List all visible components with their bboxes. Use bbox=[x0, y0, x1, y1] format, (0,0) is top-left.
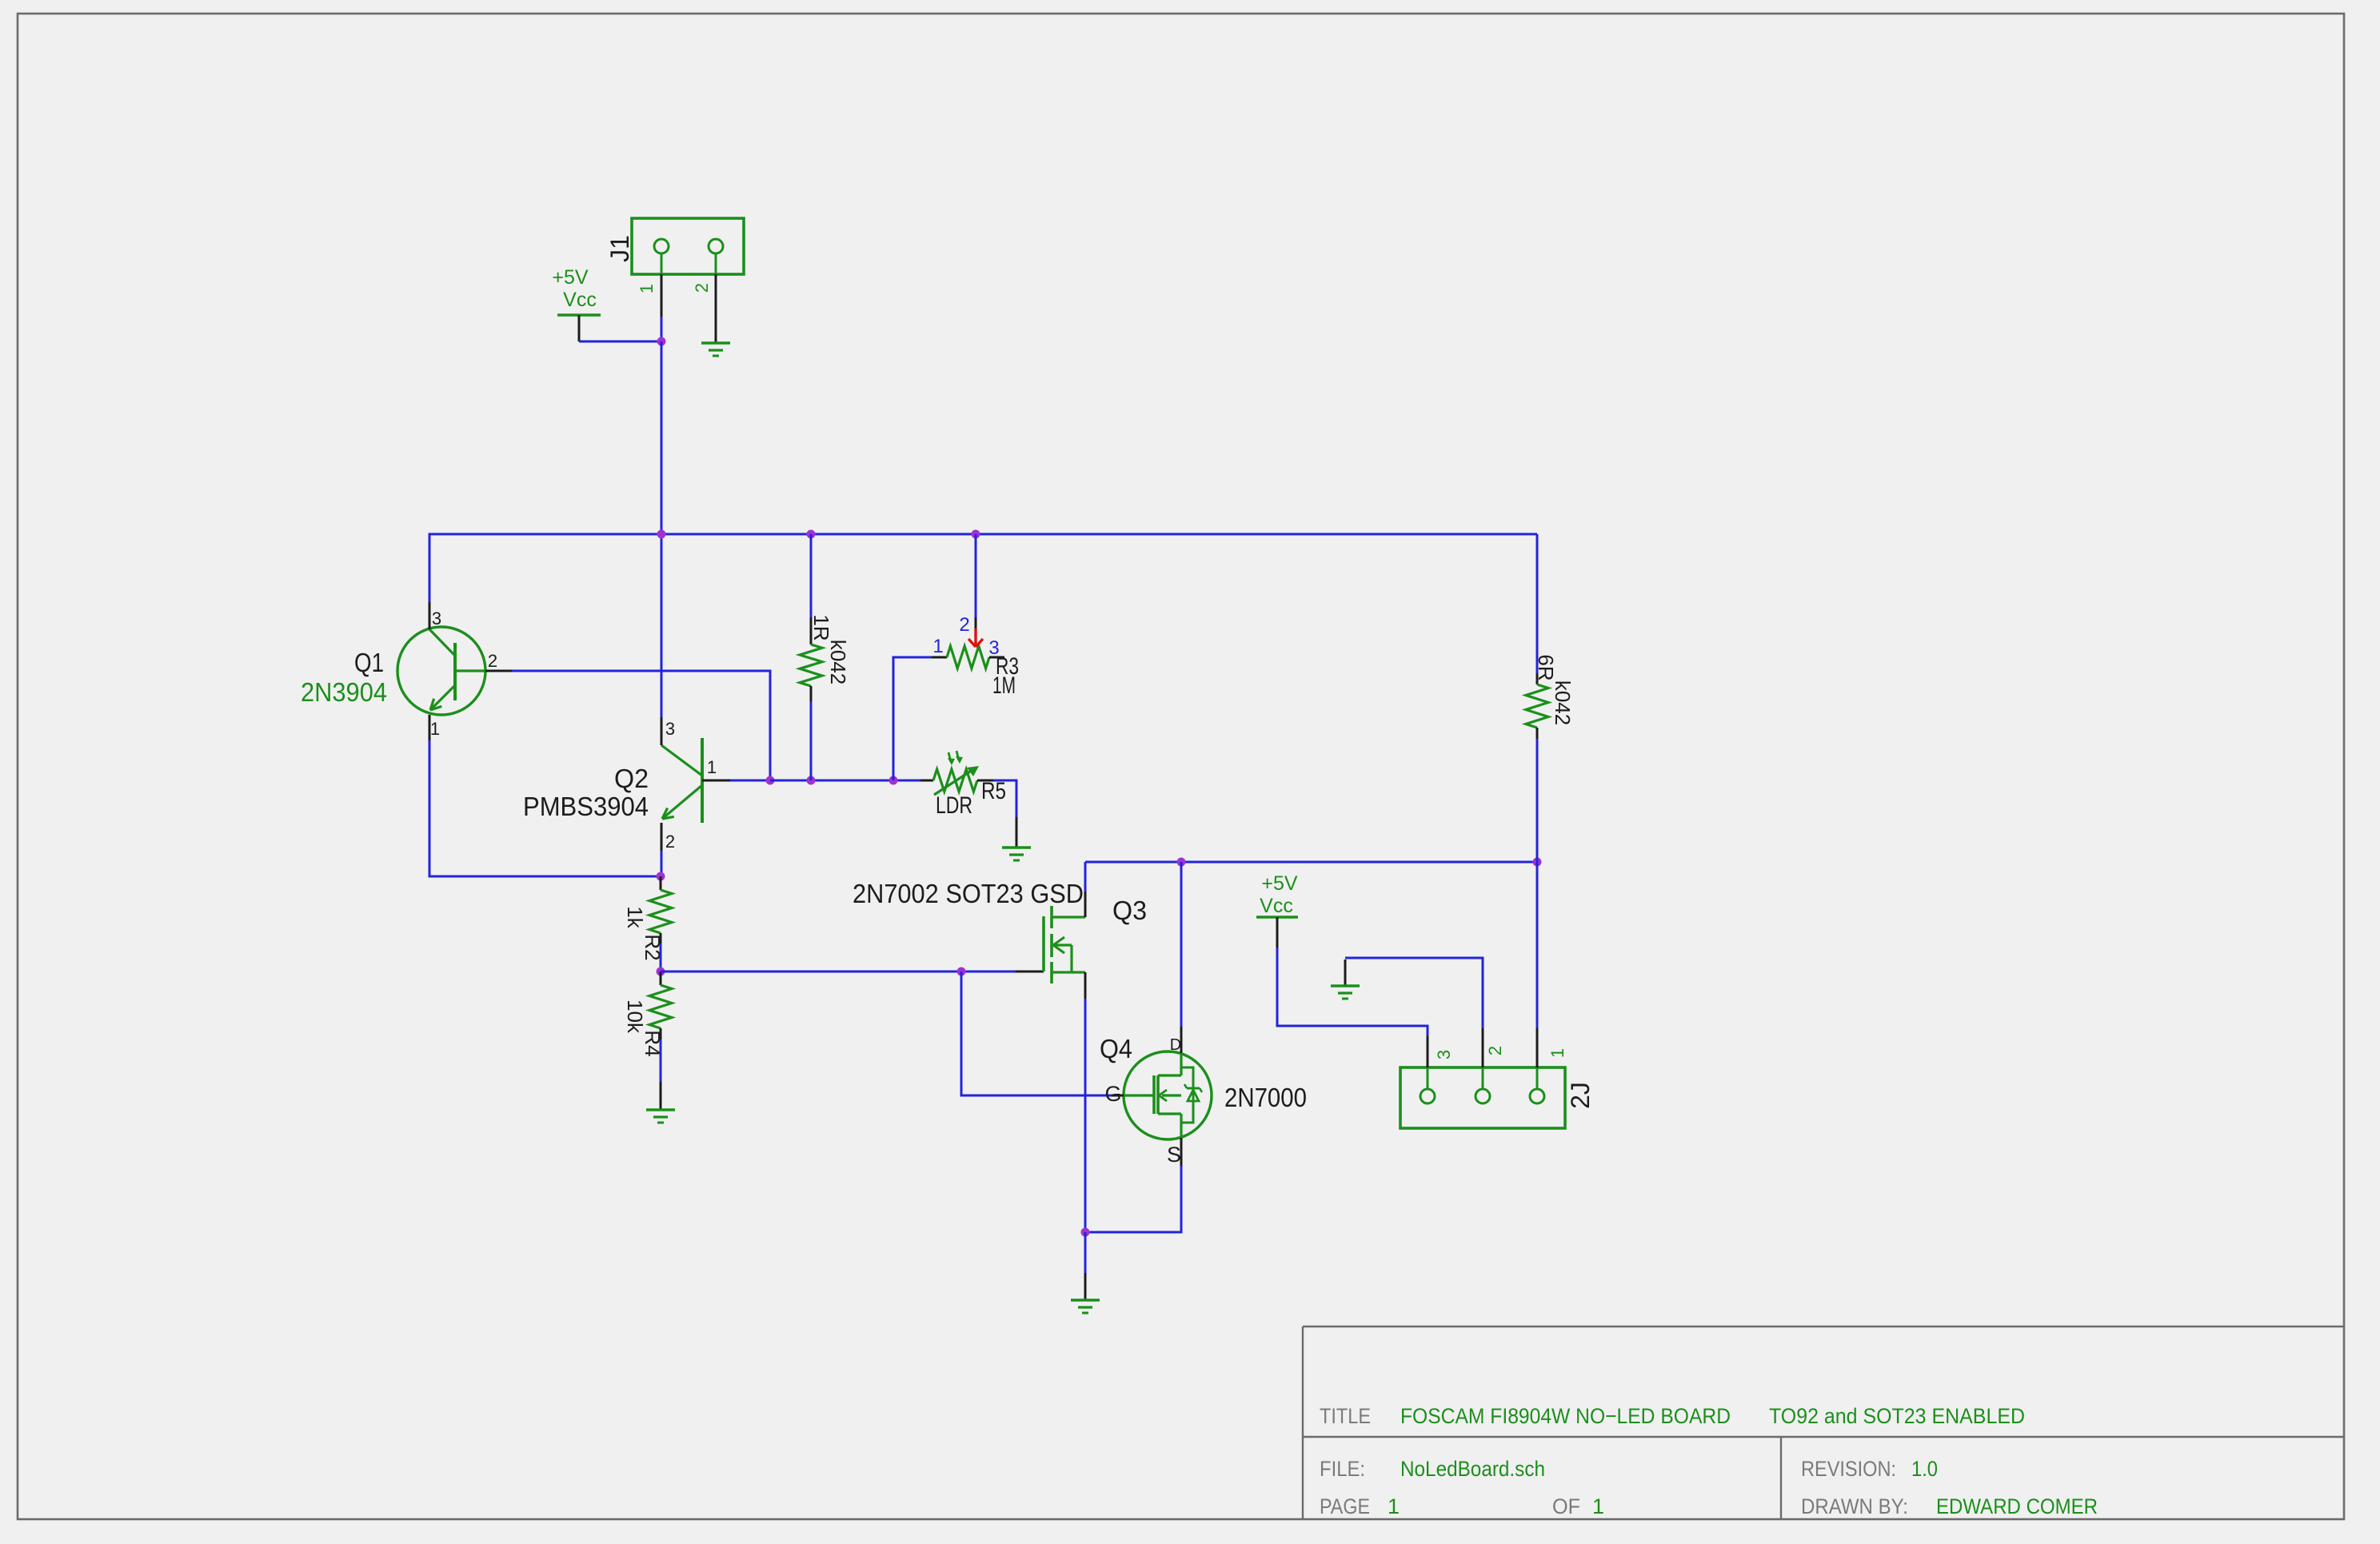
wire Q2 emitter down bbox=[661, 851, 663, 876]
svg-text:2J: 2J bbox=[1566, 1082, 1595, 1109]
svg-text:2N3904: 2N3904 bbox=[301, 677, 387, 707]
svg-text:3: 3 bbox=[665, 719, 675, 739]
wire R3 pin2 from bus bbox=[975, 534, 977, 617]
svg-text:Vcc: Vcc bbox=[1260, 895, 1293, 917]
svg-text:1R: 1R bbox=[809, 614, 833, 640]
resistor R6 240k bbox=[1526, 654, 1575, 739]
wire base bus bbox=[770, 780, 920, 782]
junction J1.1/Vcc bbox=[657, 337, 666, 346]
wire gnd3 to J2 pin2 bbox=[1345, 958, 1483, 1028]
wire gate node to Q3 gate bbox=[661, 971, 1016, 973]
svg-text:Q1: Q1 bbox=[354, 648, 384, 677]
svg-text:PMBS3904: PMBS3904 bbox=[523, 792, 649, 821]
title block bbox=[1303, 1327, 2344, 1519]
junction source node bbox=[1081, 1228, 1090, 1237]
svg-text:1: 1 bbox=[1547, 1048, 1567, 1058]
J2 pin 3 bbox=[1428, 1036, 1454, 1067]
svg-text:Vcc: Vcc bbox=[563, 289, 597, 311]
wire R5 to ground bbox=[993, 780, 1016, 817]
junction Q4 drain bbox=[1177, 858, 1186, 867]
J2 pin 2 bbox=[1483, 1028, 1505, 1067]
Q1 collector pin bbox=[429, 602, 431, 629]
source ground pin bbox=[1084, 1273, 1087, 1300]
svg-text:DRAWN BY:: DRAWN BY: bbox=[1801, 1494, 1908, 1518]
Q3 source pin bbox=[1084, 972, 1087, 999]
wire Q3 drain up bbox=[1084, 862, 1087, 892]
wire source node down bbox=[1084, 1232, 1087, 1273]
svg-text:+5V: +5V bbox=[552, 266, 589, 289]
Q2 emitter pin bbox=[661, 823, 663, 851]
wire R4 bottom bbox=[660, 1039, 662, 1082]
wire Q2 base bbox=[730, 780, 770, 782]
wire J1.1 down to Q2 collector bbox=[661, 341, 663, 717]
svg-text:2N7002 SOT23 GSD: 2N7002 SOT23 GSD bbox=[853, 879, 1084, 908]
svg-text:+5V: +5V bbox=[1261, 872, 1298, 895]
svg-text:10k: 10k bbox=[623, 999, 647, 1034]
wire Q1 base to Q2 base node bbox=[512, 671, 770, 780]
Q4 drain pin bbox=[1180, 1027, 1183, 1053]
svg-text:1: 1 bbox=[430, 719, 440, 739]
svg-text:2: 2 bbox=[488, 651, 497, 671]
svg-text:1: 1 bbox=[707, 757, 717, 777]
wire Vcc to J1 pin 1 bbox=[579, 317, 661, 341]
connector J2 bbox=[1400, 1067, 1595, 1128]
junction bus/R3 wiper riser bbox=[889, 776, 898, 785]
junction bus/R3 pin2 bbox=[972, 530, 980, 539]
svg-text:1k: 1k bbox=[623, 906, 647, 928]
wire Vcc2 to J2 pin3 bbox=[1277, 948, 1428, 1036]
svg-text:J1: J1 bbox=[605, 235, 634, 262]
ground (R4) bbox=[646, 1110, 675, 1123]
svg-text:Q3: Q3 bbox=[1112, 896, 1147, 925]
svg-text:NoLedBoard.sch: NoLedBoard.sch bbox=[1400, 1457, 1545, 1481]
svg-text:1: 1 bbox=[932, 636, 943, 657]
svg-text:3: 3 bbox=[1434, 1050, 1454, 1059]
svg-text:R5: R5 bbox=[981, 778, 1006, 804]
wire R6 top bbox=[1536, 534, 1539, 673]
svg-text:S: S bbox=[1167, 1143, 1181, 1167]
wire Q4 source down-left bbox=[1085, 1166, 1181, 1232]
junction bus/R1 bbox=[807, 530, 816, 539]
svg-text:LDR: LDR bbox=[936, 792, 972, 819]
resistor R1 240k bbox=[800, 614, 850, 701]
svg-text:TITLE: TITLE bbox=[1320, 1404, 1371, 1428]
junction Q2 base node bbox=[766, 776, 775, 785]
wire top +5V bus bbox=[429, 534, 1537, 602]
transistor Q1 2N3904 bbox=[301, 608, 512, 739]
junction bus/J1 net bbox=[657, 530, 666, 539]
ground (J1 pin 2) bbox=[701, 343, 730, 356]
wire R6 bottom bbox=[1536, 739, 1539, 862]
J1 pin 1 bbox=[637, 274, 661, 317]
svg-text:2: 2 bbox=[959, 614, 969, 636]
wire Q1 emitter to R2 node bbox=[429, 740, 661, 876]
resistor R2 1k bbox=[623, 876, 672, 961]
svg-text:PAGE: PAGE bbox=[1320, 1494, 1370, 1518]
junction R2/R4/Q3-gate node bbox=[657, 967, 665, 976]
resistor R4 10k bbox=[623, 971, 672, 1057]
connector J1 bbox=[605, 218, 744, 274]
wire R6 to J2 pin1 bbox=[1536, 862, 1539, 1028]
R4 ground pin bbox=[660, 1082, 662, 1110]
svg-text:Q2: Q2 bbox=[614, 764, 649, 793]
junction R2 top node bbox=[657, 872, 665, 881]
svg-text:REVISION:: REVISION: bbox=[1801, 1457, 1896, 1481]
junction drain bus / R6-J2 bbox=[1533, 858, 1542, 867]
Q4 source pin bbox=[1180, 1138, 1183, 1166]
svg-text:D: D bbox=[1170, 1036, 1181, 1054]
wire drain bus bbox=[1085, 861, 1537, 864]
ground (Q3/Q4 source) bbox=[1071, 1300, 1100, 1313]
Q2 collector pin bbox=[661, 717, 663, 745]
svg-text:k042: k042 bbox=[826, 640, 850, 684]
svg-text:2N7000: 2N7000 bbox=[1224, 1083, 1307, 1112]
Q3 drain pin bbox=[1084, 892, 1087, 917]
Q1 emitter pin bbox=[429, 715, 431, 740]
svg-text:2: 2 bbox=[692, 283, 712, 293]
transistor Q4 2N7000 bbox=[1100, 1034, 1307, 1167]
svg-text:TO92 and SOT23 ENABLED: TO92 and SOT23 ENABLED bbox=[1769, 1404, 2025, 1428]
svg-text:1.0: 1.0 bbox=[1911, 1457, 1938, 1481]
svg-text:1: 1 bbox=[637, 284, 657, 293]
wire R1 bottom bbox=[810, 701, 813, 780]
power +5V Vcc (left) bbox=[552, 266, 601, 341]
svg-text:OF: OF bbox=[1552, 1494, 1580, 1518]
svg-text:G: G bbox=[1104, 1082, 1121, 1106]
svg-text:1: 1 bbox=[1592, 1494, 1604, 1518]
J2 pin 1 bbox=[1537, 1028, 1567, 1067]
wire R2 bottom bbox=[660, 944, 662, 971]
transistor Q3 2N7002 bbox=[853, 879, 1147, 983]
svg-text:FOSCAM FI8904W NO−LED BOARD: FOSCAM FI8904W NO−LED BOARD bbox=[1400, 1404, 1731, 1428]
junction Q4 gate tap bbox=[957, 967, 966, 976]
wire Q4 gate L bbox=[961, 971, 1112, 1095]
svg-text:Q4: Q4 bbox=[1100, 1034, 1132, 1063]
ground (R5) bbox=[1002, 848, 1031, 860]
wire R3 pin1 to wiper node bbox=[893, 657, 932, 780]
svg-text:EDWARD COMER: EDWARD COMER bbox=[1936, 1494, 2098, 1518]
svg-text:2: 2 bbox=[665, 832, 675, 852]
power +5V Vcc (right) bbox=[1256, 872, 1298, 948]
wire Q3 source down bbox=[1084, 999, 1087, 1232]
svg-text:3: 3 bbox=[432, 608, 441, 628]
ground (J2 pin 2) bbox=[1331, 960, 1360, 999]
J1 pin 2 bbox=[692, 274, 716, 343]
svg-text:2: 2 bbox=[1485, 1046, 1505, 1055]
svg-text:1: 1 bbox=[1388, 1494, 1400, 1518]
wire Q4 drain up bbox=[1180, 862, 1183, 1027]
junction bus/R1 bottom bbox=[807, 776, 816, 785]
wire R1 top bbox=[810, 534, 813, 617]
svg-text:k042: k042 bbox=[1551, 680, 1575, 725]
svg-text:1M: 1M bbox=[992, 672, 1016, 699]
photoresistor R5 LDR bbox=[920, 751, 1006, 819]
R5 ground pin bbox=[1016, 817, 1018, 848]
svg-text:FILE:: FILE: bbox=[1320, 1457, 1365, 1481]
transistor Q2 PMBS3904 bbox=[523, 719, 730, 852]
potentiometer R3 1M bbox=[932, 614, 1019, 699]
